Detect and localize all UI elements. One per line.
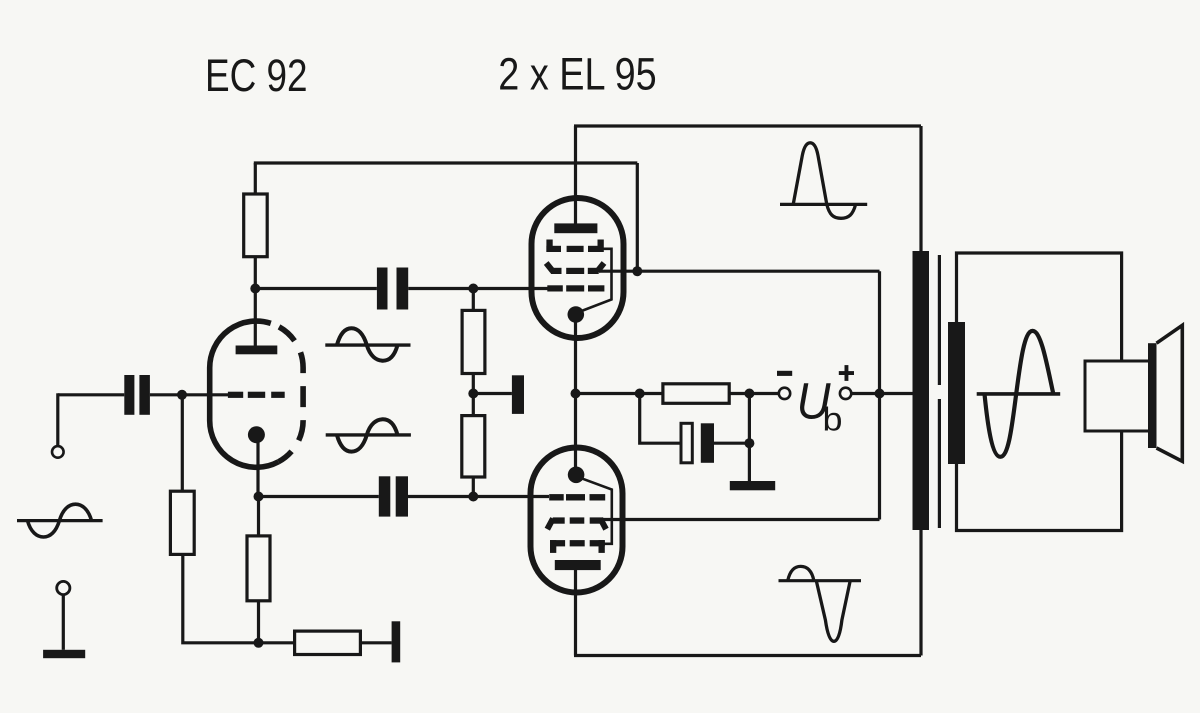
V1 cathode dot <box>248 426 265 443</box>
wire cathode node to C3 <box>259 495 379 498</box>
node screen feed <box>632 266 642 276</box>
V2 g1 row <box>547 285 604 291</box>
tube V2 EL95 upper envelope <box>532 198 624 338</box>
V1 anode bar <box>236 346 278 355</box>
V3 g1 row <box>549 494 605 500</box>
wire secondary loop <box>957 253 1122 531</box>
V2 g3 row <box>546 240 603 253</box>
node cathode rail <box>571 389 581 399</box>
wire R7 bottom to anode <box>254 257 257 350</box>
waveform output upper <box>780 143 867 219</box>
wire C2 to upper grid <box>408 287 547 290</box>
waveform output sine <box>977 331 1060 457</box>
wire V2 anode top lead <box>574 126 577 228</box>
V2 anode bar <box>554 223 597 233</box>
svg-text:2 x EL 95: 2 x EL 95 <box>498 49 656 100</box>
resistor R2 divider upper <box>462 310 485 373</box>
wire input drop to terminal <box>56 393 59 446</box>
wire Ub minus rail <box>576 392 779 395</box>
node divider mid <box>468 389 478 399</box>
wire screen rail down right <box>878 271 881 519</box>
terminal ground jack <box>57 581 70 594</box>
terminal input jack <box>52 446 64 458</box>
svg-text:EC 92: EC 92 <box>205 50 308 101</box>
resistor R4 cathode chain <box>247 536 270 601</box>
V3 cathode dot <box>568 467 585 484</box>
node RC left <box>635 389 645 399</box>
wire grid node down to R1 <box>181 395 184 491</box>
wire C1 to grid node <box>150 393 228 396</box>
tube V1 EC92 envelope solid part <box>210 321 279 467</box>
V3 anode bar <box>555 560 601 570</box>
node bottom rail <box>254 638 264 648</box>
wire bottom node up to R4 <box>257 601 260 643</box>
speaker coil bar <box>1148 343 1157 448</box>
resistor R6 filter <box>663 384 729 404</box>
waveform sine upper drive <box>325 328 410 361</box>
V3 g3 row <box>550 540 605 553</box>
waveform input sine <box>17 504 103 537</box>
wire input <box>58 393 125 396</box>
resistor R5 horizontal <box>295 631 361 654</box>
speaker cone <box>1157 325 1183 461</box>
V3 suppressor link <box>582 478 612 544</box>
label plus <box>839 365 854 381</box>
wire R5 to chassis bar <box>360 641 391 644</box>
svg-text:b: b <box>823 401 843 438</box>
wire V1 cathode lead <box>256 435 259 497</box>
wire R1 to bottom rail <box>183 554 295 642</box>
wire bottom rail to transformer <box>574 530 921 656</box>
wire screen rail upper <box>600 270 880 273</box>
node RC right <box>744 389 754 399</box>
node divider top <box>468 284 478 294</box>
wire divider verticals <box>472 289 475 497</box>
wire feed top <box>254 163 638 271</box>
tube V1 EC92 envelope dashed part <box>271 323 303 462</box>
node input grid <box>177 390 187 400</box>
wire screen rail lower <box>600 518 880 521</box>
V2 cathode dot <box>568 306 585 323</box>
wire top rail to transformer <box>574 126 921 251</box>
node divider bottom <box>468 492 478 502</box>
transformer primary bar <box>913 251 930 530</box>
node cap ground <box>744 438 754 448</box>
terminal Ub plus <box>840 388 851 399</box>
V2 g2 row <box>546 263 604 274</box>
tube V3 EL95 lower envelope <box>531 448 623 593</box>
resistor R1 grid leak <box>170 491 194 554</box>
resistor R3 divider lower <box>462 416 485 477</box>
node Ub plus rail <box>875 389 885 399</box>
resistor R7 anode EC92 <box>244 194 268 257</box>
capacitor C2 <box>377 268 408 310</box>
label minus <box>777 371 792 376</box>
wire anode to C2 <box>255 287 377 290</box>
V2 suppressor link <box>582 249 612 311</box>
waveform sine lower drive <box>326 419 411 451</box>
wire C3 to lower grid <box>408 495 549 498</box>
capacitor C4 electrolytic <box>681 423 714 463</box>
chassis bar bottom <box>392 621 401 662</box>
wire divider tap <box>473 392 512 395</box>
V3 g2 row <box>547 517 606 529</box>
wire V3 anode bottom lead <box>574 565 577 656</box>
capacitor C3 <box>379 476 408 516</box>
wire terminal to ground <box>62 595 65 650</box>
wire cathode node to R4 <box>257 497 260 536</box>
waveform output lower <box>779 566 862 641</box>
ground bar input <box>43 650 85 658</box>
chassis bar divider <box>512 375 524 414</box>
capacitor C1 <box>124 375 150 415</box>
ground bar filter <box>730 481 775 490</box>
wire R7 top riser <box>254 163 257 194</box>
wire cathode rail <box>574 315 577 475</box>
node anode <box>250 284 260 294</box>
wire plus to primary <box>851 392 912 395</box>
V1 grid dashes <box>228 392 285 398</box>
speaker box <box>1085 361 1152 431</box>
node V1 cathode <box>254 492 264 502</box>
wire cap branch <box>640 394 750 482</box>
transformer secondary bar <box>948 322 965 464</box>
terminal Ub minus <box>779 388 790 399</box>
transformer core line <box>938 255 941 528</box>
